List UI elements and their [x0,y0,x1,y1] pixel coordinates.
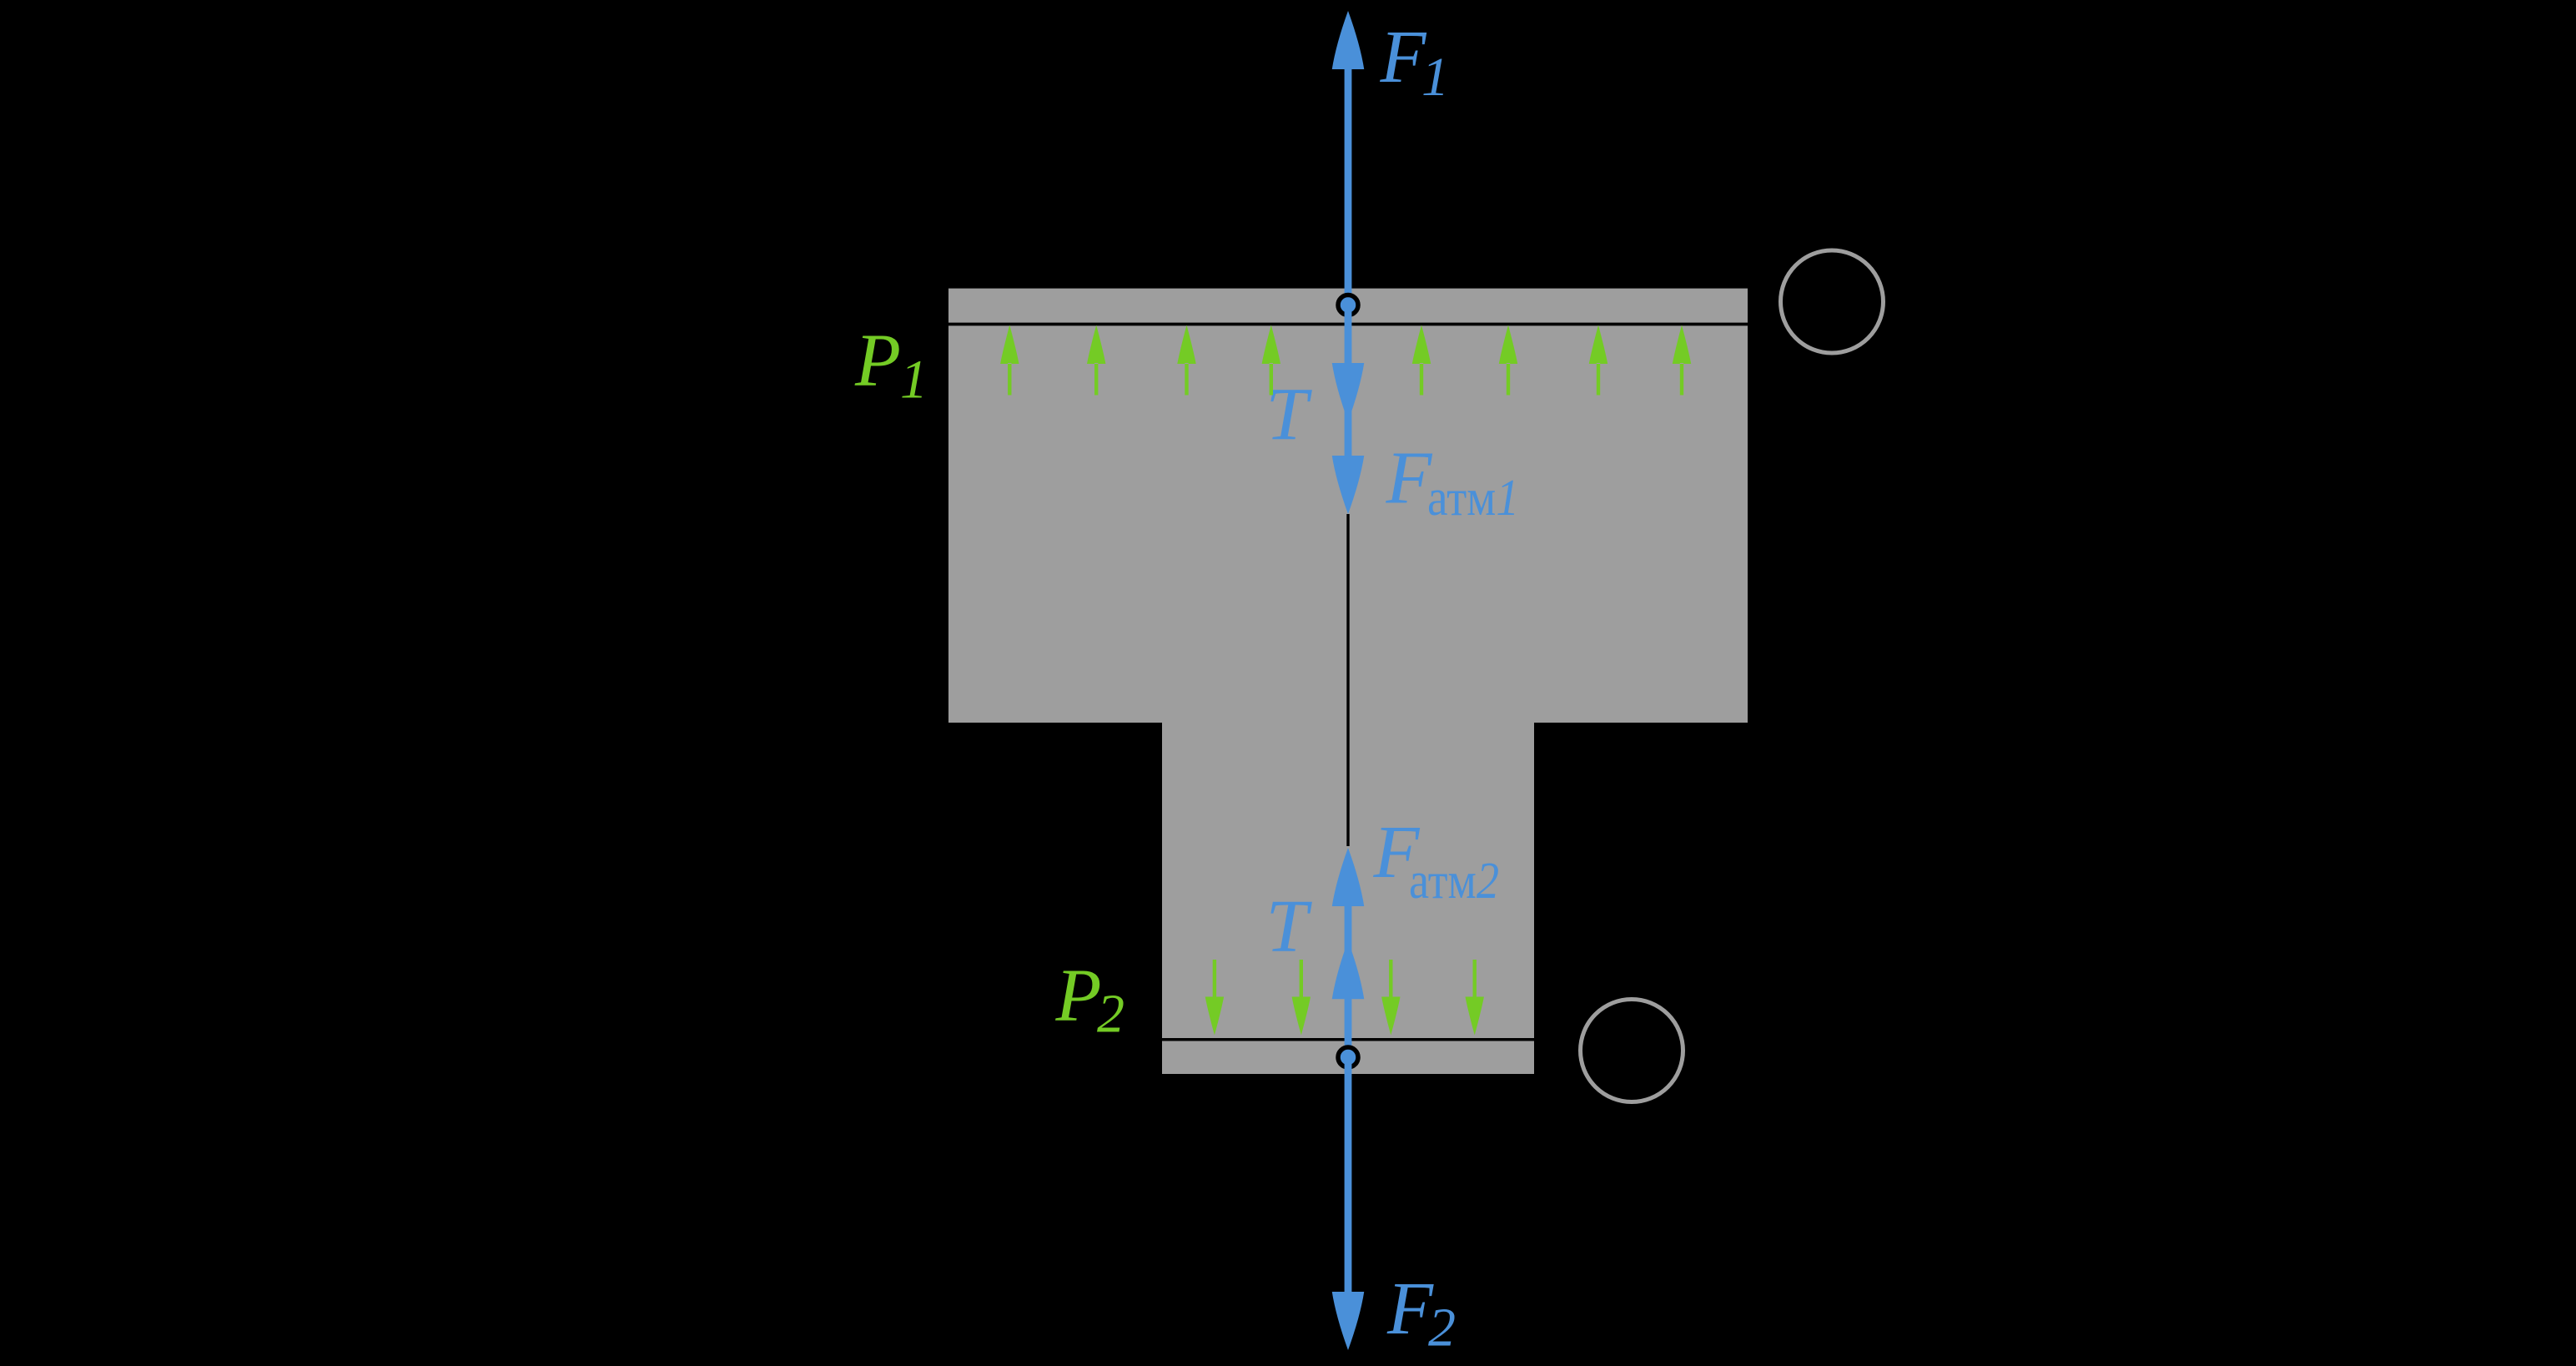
svg-text:F: F [1380,16,1427,98]
bottom piston surface line [1162,1038,1534,1041]
lower gas boundary circle (right) [1581,1000,1683,1102]
pressure P2 arrows (4 green down arrows on bottom surface) [1205,960,1484,1036]
P1 pressure arrow 7 [1589,325,1607,396]
P1 pressure arrow 4 [1262,325,1280,396]
F_atm2 arrowhead (up) [1332,848,1365,906]
P2 pressure arrow 3 [1381,960,1400,1036]
P2 pressure arrow 2 [1292,960,1311,1036]
top piston surface line [948,323,1748,326]
P1 pressure arrow 5 [1412,325,1431,396]
F_atm1 arrowhead (down) [1332,456,1365,514]
svg-text:P: P [1055,955,1102,1037]
svg-text:T: T [1266,885,1313,968]
force F_atm2 / tension T arrow up (shared shaft) [1332,848,1365,1057]
svg-text:F: F [1386,437,1433,520]
svg-text:2: 2 [1428,1298,1456,1358]
force F2 arrow (down) [1332,1057,1365,1350]
svg-text:P: P [854,320,901,402]
top node (attachment point) [1338,295,1358,315]
T/F_atm1 shared shaft [1345,305,1352,467]
svg-text:1: 1 [1421,47,1449,108]
P1 pressure arrow 6 [1499,325,1517,396]
F1 arrowhead [1332,11,1365,69]
tension T arrowhead (up) [1332,940,1365,999]
F1 arrow shaft [1345,67,1352,305]
P2 pressure arrow 1 [1205,960,1224,1036]
P1 pressure arrow 1 [1000,325,1019,396]
svg-text:F: F [1386,1268,1434,1350]
P1 pressure arrow 2 [1087,325,1105,396]
svg-text:1: 1 [900,349,928,410]
piston assembly body (gray T-shape) [948,289,1748,1074]
bottom node (attachment point) [1338,1047,1358,1067]
upper gas boundary circle (right) [1781,250,1884,353]
T/F_atm2 shared shaft [1345,893,1352,1057]
svg-text:2: 2 [1097,983,1124,1044]
tension T arrow down with atmospheric force head (shared shaft) [1332,305,1365,514]
pressure P1 arrows (8 green up arrows on top surface) [1000,325,1691,396]
connecting thread between pistons [1346,514,1349,846]
P1 pressure arrow 8 [1673,325,1691,396]
P1 pressure arrow 3 [1177,325,1195,396]
svg-text:атм1: атм1 [1427,470,1519,527]
F2 arrowhead [1332,1292,1365,1350]
force F1 arrow (up) [1332,11,1365,305]
svg-text:атм2: атм2 [1409,853,1499,910]
F2 arrow shaft [1345,1057,1352,1295]
P2 pressure arrow 4 [1466,960,1484,1036]
tension T arrowhead (down) [1332,363,1365,421]
